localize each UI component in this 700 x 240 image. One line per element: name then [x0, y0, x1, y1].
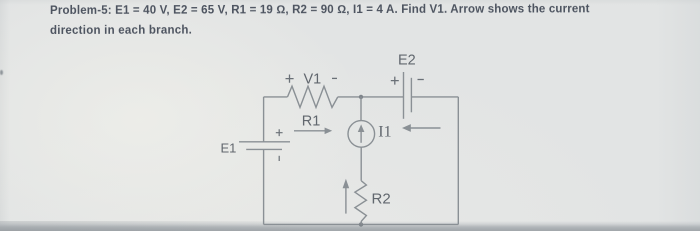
resistor R1 [288, 86, 338, 107]
current source I1 circle [348, 121, 375, 148]
battery E2 minus sign [418, 79, 424, 81]
battery E2 long plate [403, 72, 405, 119]
V1 minus sign [332, 77, 337, 79]
wire middle branch upper [360, 97, 362, 121]
battery E2 short plate [410, 78, 412, 113]
wire top-left segment [264, 96, 288, 98]
node B junction dot bottom [359, 222, 363, 226]
wire bottom [264, 223, 459, 225]
current source I1 arrow [358, 124, 365, 142]
current arrow beside R2 (up) [343, 179, 350, 214]
resistor R2 [355, 181, 367, 225]
svg-text:I1: I1 [378, 124, 391, 141]
wire right side [457, 97, 459, 224]
battery E1 minus mark [278, 156, 280, 161]
wire middle branch lower [360, 147, 362, 181]
svg-text:R2: R2 [372, 191, 391, 208]
battery E1 plus sign [276, 129, 283, 136]
current arrow from E2 branch (left) [402, 124, 441, 132]
svg-text:E2: E2 [398, 52, 416, 68]
battery E1 short plate [246, 148, 282, 150]
svg-text:E1: E1 [221, 140, 237, 155]
wire top-right segment [411, 96, 458, 98]
svg-text:R1: R1 [302, 113, 321, 129]
wire left lower [263, 149, 265, 224]
wire left upper [263, 97, 265, 142]
V1 plus sign [286, 75, 294, 83]
current arrow for R1 branch (right) [294, 128, 332, 135]
node A junction dot top [359, 95, 363, 99]
wire top-middle segment [338, 96, 404, 98]
battery E1 long plate [239, 141, 290, 143]
svg-text:V1: V1 [304, 71, 322, 87]
battery E2 plus sign [391, 77, 399, 85]
